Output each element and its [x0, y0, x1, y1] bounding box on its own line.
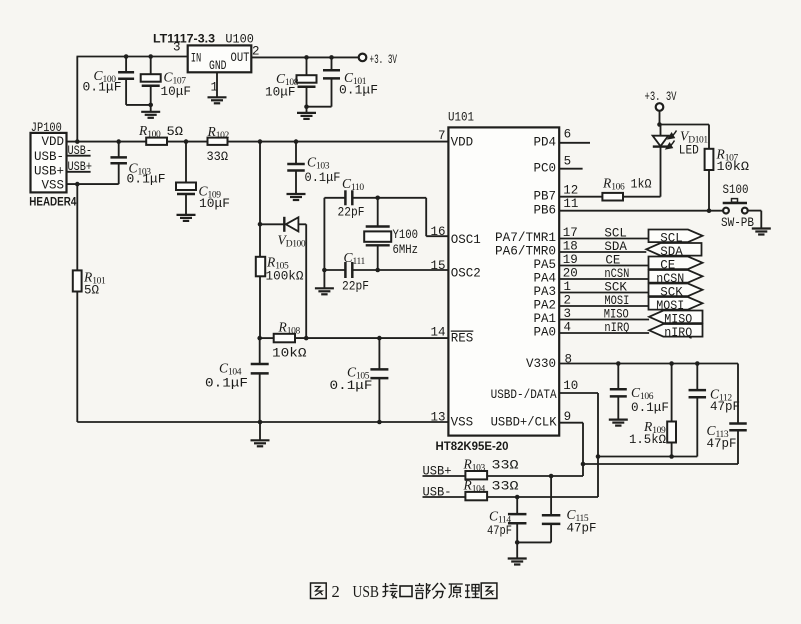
svg-text:MISO: MISO [604, 307, 629, 321]
node: line start on USBD- riser [596, 454, 601, 459]
wire VD100 anode down to R108 right node [305, 224, 307, 338]
svg-text:11: 11 [563, 197, 578, 211]
svg-text:SCK: SCK [604, 280, 627, 294]
svg-text:OSC1: OSC1 [451, 233, 481, 247]
capacitor C105 0.1uF on RES line [377, 336, 382, 341]
PA0 nIRQ wire [559, 332, 649, 334]
svg-text:2: 2 [332, 582, 340, 601]
svg-text:47pF: 47pF [707, 437, 737, 451]
svg-text:0.1μF: 0.1μF [339, 84, 378, 98]
svg-text:100kΩ: 100kΩ [266, 270, 304, 284]
node: LED/R107 top junction [657, 122, 662, 127]
svg-text:47pF: 47pF [567, 522, 597, 536]
svg-text:9: 9 [564, 410, 572, 424]
svg-text:PA7/TMR1: PA7/TMR1 [495, 231, 556, 245]
svg-text:5Ω: 5Ω [167, 125, 184, 139]
ground below C108/C101 [297, 112, 316, 114]
net label USB+ stub from header [67, 171, 91, 173]
flag SCK [649, 284, 703, 297]
svg-text:C107: C107 [164, 70, 187, 87]
svg-text:12: 12 [563, 183, 578, 197]
PA3 SCK wire [559, 292, 648, 294]
svg-text:RES: RES [451, 332, 474, 346]
svg-text:0.1μF: 0.1μF [83, 81, 122, 95]
wire C110 right down to OSC1 pin [425, 198, 427, 236]
LED emission arrows [666, 131, 676, 149]
pin 6 PD4 stub [559, 142, 590, 144]
resistor R107 10k [708, 125, 710, 149]
wire joining C100 and C107 bottoms [126, 104, 151, 106]
svg-text:10kΩ: 10kΩ [272, 347, 307, 361]
svg-text:R108: R108 [278, 320, 301, 337]
svg-text:C110: C110 [342, 176, 364, 193]
capacitor C113 47pF [737, 364, 739, 424]
svg-text:OSC2: OSC2 [451, 267, 481, 281]
flag SDA [646, 243, 701, 256]
resistor R104 33ohm [465, 492, 487, 500]
node: line start on USBD+ riser [581, 462, 586, 467]
svg-text:CE: CE [605, 253, 620, 267]
svg-text:USB+: USB+ [34, 165, 64, 179]
svg-text:10μF: 10μF [199, 197, 230, 211]
node: R107 bottom junction on PB6 wire [707, 208, 712, 213]
svg-text:VD100: VD100 [278, 233, 306, 250]
svg-text:SW-PB: SW-PB [721, 216, 754, 230]
voltage regulator U100 LT1117-3.3 body [188, 45, 252, 72]
flag MOSI [649, 297, 703, 310]
svg-text:VDD: VDD [451, 135, 474, 149]
flag nIRQ [649, 324, 702, 337]
svg-text:PA1: PA1 [533, 312, 556, 326]
svg-text:VSS: VSS [451, 416, 474, 430]
svg-text:OUT: OUT [231, 51, 250, 65]
V330 pin 8 wire [559, 363, 738, 365]
node: C106 junction on V330 [616, 361, 621, 366]
svg-text:+3. 3V: +3. 3V [370, 53, 398, 67]
svg-text:2: 2 [252, 45, 260, 59]
resistor R109 1.5k [671, 364, 673, 422]
node: OSC2/ground junction [322, 268, 327, 273]
svg-text:PD4: PD4 [533, 136, 556, 150]
resistor R105 100k [256, 257, 265, 277]
riser from VDD rail down to VD100 node [258, 139, 263, 144]
svg-text:22pF: 22pF [338, 206, 365, 220]
node: VSS junction at header [75, 182, 80, 187]
node: USB cap ground junction [515, 540, 520, 545]
PA5 CE wire [559, 265, 648, 267]
svg-text:U100: U100 [225, 33, 254, 47]
svg-text:S100: S100 [723, 183, 749, 197]
svg-text:PA5: PA5 [533, 258, 556, 272]
node: C107 top junction [148, 54, 153, 59]
svg-text:10μF: 10μF [265, 86, 296, 100]
svg-text:PA2: PA2 [533, 299, 556, 313]
svg-text:PC0: PC0 [533, 162, 556, 176]
net label USB- stub from header [67, 155, 91, 157]
wire JP100 VDD pin to R100 [67, 141, 147, 143]
svg-text:USB: USB [353, 582, 380, 601]
svg-text:33Ω: 33Ω [492, 459, 520, 473]
svg-text:+3. 3V: +3. 3V [645, 90, 677, 104]
capacitor C110 22pF [324, 197, 345, 199]
svg-text:33Ω: 33Ω [492, 480, 520, 494]
connector JP100 HEADER4 body [31, 133, 67, 193]
node: crystal bottom junction [375, 268, 380, 273]
ground below C109 [177, 214, 196, 216]
svg-text:C114: C114 [489, 509, 511, 526]
svg-text:R103: R103 [463, 457, 486, 474]
node: R105/C104/RES-line junction [257, 336, 262, 341]
svg-text:47pF: 47pF [710, 400, 740, 414]
resistor R102 33ohm [208, 138, 228, 145]
USBD- lower return line to C112 [598, 456, 697, 458]
svg-text:16: 16 [430, 225, 445, 239]
ground below C114 [508, 557, 527, 559]
resistor R108 10k in RES line [260, 337, 274, 339]
capacitor C104 0.1uF on RES line [259, 338, 261, 364]
capacitor C112 47pF [696, 364, 698, 391]
svg-text:USB+: USB+ [68, 160, 93, 174]
svg-text:R102: R102 [207, 124, 230, 141]
svg-text:JP100: JP100 [31, 121, 62, 135]
svg-text:6: 6 [564, 128, 572, 142]
svg-text:LED: LED [679, 144, 699, 158]
svg-text:PA6/TMR0: PA6/TMR0 [495, 245, 556, 259]
svg-text:USBD-/DATA: USBD-/DATA [491, 388, 557, 402]
capacitor C100 0.1uF [125, 57, 127, 73]
resistor R106 1k on PB7 [559, 196, 602, 198]
capacitor C108 10uF electrolytic [304, 55, 309, 60]
svg-text:GND: GND [209, 59, 227, 73]
node: R108 right / VD100 anode junction [304, 336, 309, 341]
ground below C106 [609, 419, 628, 421]
svg-text:PA4: PA4 [533, 272, 556, 286]
svg-text:USB-: USB- [34, 150, 64, 164]
svg-text:PA3: PA3 [533, 285, 556, 299]
ground on VSS rail [251, 439, 270, 441]
svg-text:47pF: 47pF [487, 524, 512, 538]
node: VDD rail junction at top of header riser [75, 139, 80, 144]
svg-text:HEADER4: HEADER4 [29, 195, 76, 209]
PA6 SDA wire [559, 251, 646, 253]
caption: figure 2 USB interface schematic [311, 583, 327, 599]
svg-text:C111: C111 [344, 250, 366, 267]
svg-text:C104: C104 [219, 361, 242, 378]
svg-text:nIRQ: nIRQ [664, 326, 692, 340]
capacitor C107 10uF electrolytic [150, 57, 152, 75]
U100 GND pin wire [216, 72, 218, 97]
pin 10 USBD-/DATA wire [559, 392, 598, 394]
svg-text:6MHz: 6MHz [393, 243, 419, 257]
svg-text:15: 15 [430, 259, 445, 273]
wire S100 to ground [748, 210, 761, 212]
+3.3V terminal above LED [656, 103, 664, 111]
svg-text:10: 10 [563, 379, 578, 393]
svg-text:R100: R100 [138, 123, 161, 140]
resistor R101 5ohm in VSS return [76, 184, 78, 270]
svg-text:SCL: SCL [604, 226, 627, 240]
crystal Y100 6MHz [377, 198, 379, 227]
svg-text:R106: R106 [602, 176, 625, 193]
svg-text:USB-: USB- [68, 144, 93, 158]
wire R100 to R102 [167, 141, 208, 143]
capacitor C103 0.1uF at VDD of U101 [294, 139, 299, 144]
PB6 wire to switch S100 [559, 210, 723, 212]
svg-text:C106: C106 [631, 385, 654, 402]
ground below C100/C107 [141, 111, 160, 113]
svg-text:LT1117-3.3: LT1117-3.3 [153, 32, 215, 46]
node: rail ground junction [258, 420, 263, 425]
svg-text:MOSI: MOSI [604, 294, 629, 308]
node: input cap ground junction [148, 103, 153, 108]
svg-text:nCSN: nCSN [604, 267, 629, 281]
svg-text:3: 3 [173, 41, 181, 55]
wire joining C114/C115 bottoms [517, 541, 551, 543]
svg-text:USBD+/CLK: USBD+/CLK [491, 416, 557, 430]
svg-text:U101: U101 [448, 111, 474, 125]
svg-text:7: 7 [438, 129, 446, 143]
node: C114 junction on USB- line [515, 495, 520, 500]
node: junction between R100 and R102 (C109 tap) [184, 139, 189, 144]
LED VD101 [660, 125, 662, 136]
svg-text:PB7: PB7 [533, 190, 556, 204]
svg-text:22pF: 22pF [342, 280, 369, 294]
svg-text:HT82K95E-20: HT82K95E-20 [436, 439, 509, 453]
regulator input rail wire from JP100 VDD up to LT1117 IN [76, 57, 78, 143]
node: R109 bottom junction [669, 454, 674, 459]
svg-text:nIRQ: nIRQ [604, 321, 629, 335]
PA7 SCL wire [559, 238, 648, 240]
svg-text:10kΩ: 10kΩ [717, 160, 750, 174]
svg-text:C103: C103 [307, 155, 330, 172]
wire joining C108 and C101 bottoms [307, 106, 332, 108]
capacitor C106 0.1uF [617, 364, 619, 390]
svg-text:0.1μF: 0.1μF [127, 173, 166, 187]
node: C105 to rail junction [377, 420, 382, 425]
svg-text:5Ω: 5Ω [84, 284, 99, 298]
flag CE [649, 257, 703, 270]
pin 5 PC0 stub [559, 168, 582, 170]
capacitor C115 47pF [550, 476, 552, 515]
svg-text:VDD: VDD [41, 135, 64, 149]
flag nCSN [649, 270, 703, 283]
svg-text:1kΩ: 1kΩ [631, 178, 652, 192]
ground below OSC caps [323, 270, 325, 288]
diode VD100 [260, 223, 286, 225]
node: crystal top junction [375, 196, 380, 201]
capacitor C111 22pF on OSC2 line [324, 269, 345, 271]
svg-text:10μF: 10μF [161, 85, 192, 99]
wire JP100 VSS pin to C103 bottom [67, 183, 119, 185]
ground below S100 [752, 227, 771, 229]
svg-text:PA0: PA0 [533, 326, 556, 340]
flag MISO [649, 311, 702, 324]
svg-text:IN: IN [191, 52, 202, 66]
node: C112 junction on V330 [695, 361, 700, 366]
ground below U100 [208, 96, 227, 98]
svg-text:13: 13 [430, 411, 445, 425]
svg-text:V330: V330 [526, 357, 556, 371]
node: C100 top junction [124, 54, 129, 59]
VSS bottom rail [77, 421, 448, 423]
svg-text:SDA: SDA [604, 240, 627, 254]
wire C110 left down to OSC2 line [323, 198, 325, 270]
svg-text:0.1μF: 0.1μF [205, 377, 248, 391]
svg-text:Y100: Y100 [393, 228, 419, 242]
ground below second C103 [287, 193, 306, 195]
svg-text:33Ω: 33Ω [207, 150, 229, 164]
microcontroller U101 HT82K95E-20 body [448, 127, 559, 435]
capacitor C103 0.1uF at header [116, 139, 121, 144]
svg-text:PB6: PB6 [533, 204, 556, 218]
node: R109 junction on V330 [669, 361, 674, 366]
PA4 nCSN wire [559, 278, 648, 280]
svg-text:14: 14 [430, 325, 445, 339]
capacitor C109 10uF electrolytic [185, 142, 187, 183]
node: C115 junction on USB+ line [549, 474, 554, 479]
+3.3V terminal [359, 54, 367, 62]
svg-text:0.1μF: 0.1μF [330, 379, 373, 393]
svg-text:5: 5 [564, 155, 572, 169]
svg-text:0.1μF: 0.1μF [305, 171, 341, 185]
flag SCL [649, 230, 703, 243]
svg-text:0.1μF: 0.1μF [631, 401, 669, 415]
node: VD100 cathode junction [258, 222, 263, 227]
svg-text:VSS: VSS [41, 178, 64, 192]
USBD+ lower return line to C113 [583, 463, 738, 465]
PA1 MISO wire [559, 319, 649, 321]
svg-text:1.5kΩ: 1.5kΩ [629, 433, 666, 447]
wire U100 OUT to +3.3V terminal [251, 56, 358, 58]
capacitor C114 47pF [516, 497, 518, 514]
resistor R100 5ohm [146, 138, 167, 145]
PA2 MOSI wire [559, 305, 648, 307]
resistor R103 33ohm [465, 471, 487, 479]
capacitor C101 0.1uF [329, 55, 334, 60]
wire R102 to U101 VDD pin [228, 141, 449, 143]
pin 9 USBD+/CLK wire [559, 422, 583, 424]
